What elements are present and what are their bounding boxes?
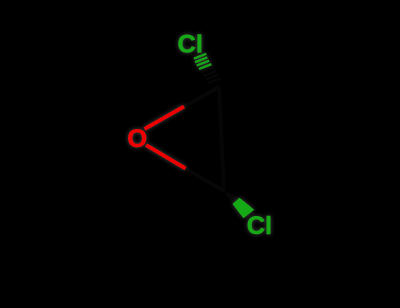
svg-text:Cl: Cl bbox=[178, 31, 203, 59]
svg-text:O: O bbox=[127, 125, 147, 153]
solid wedge bond C2 to bottom Cl (black tip half, near-invisible) bbox=[224, 191, 240, 204]
hashed wedge bond C1 to top Cl (black half, near-invisible) bbox=[201, 68, 220, 83]
wire O-C1 bond red half bbox=[145, 107, 185, 130]
wire O-C2 bond black half bbox=[186, 169, 225, 192]
wire O-C1 bond black half bbox=[184, 87, 219, 107]
wire O-C2 bond red half bbox=[146, 145, 186, 169]
svg-text:Cl: Cl bbox=[247, 212, 272, 240]
hashed wedge bond C1 to top Cl (green half) bbox=[194, 54, 212, 69]
wire C1-C2 ring bond (black, near-invisible) bbox=[219, 87, 224, 191]
solid wedge bond C2 to bottom Cl (green half) bbox=[233, 198, 255, 219]
